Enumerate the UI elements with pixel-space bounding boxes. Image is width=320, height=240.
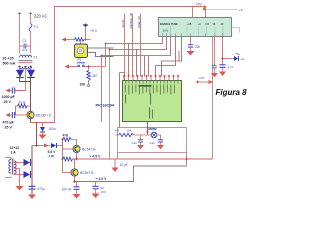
ground cluster 2 bbox=[222, 67, 224, 71]
svg-text:22n: 22n bbox=[195, 45, 201, 49]
diode D7 bbox=[220, 64, 226, 66]
wire top vertical 3 bbox=[140, 14, 142, 77]
junction row above IC bbox=[123, 75, 179, 77]
wire vertical bus d bbox=[120, 73, 125, 81]
svg-text:C1: C1 bbox=[23, 39, 27, 43]
wire TR1 sec right bbox=[30, 67, 32, 71]
wire raw dc down bbox=[30, 82, 32, 112]
border crystal box bbox=[118, 128, 187, 153]
ground C7 bbox=[76, 189, 78, 194]
wire staircase bus L4 bbox=[156, 37, 176, 77]
resistor R4 bbox=[75, 38, 85, 42]
wire T2 base bbox=[63, 172, 74, 174]
junction rail2 bbox=[73, 180, 76, 183]
wire vertical bus b bbox=[101, 56, 103, 122]
capacitor C2 1000uF bbox=[11, 88, 13, 94]
svg-text:12+12: 12+12 bbox=[10, 146, 20, 150]
wire mic out 1 bbox=[88, 47, 114, 49]
wire bus vertical h bbox=[148, 56, 150, 77]
wire base Q1 bbox=[16, 114, 30, 116]
wire staircase bus L2 bbox=[110, 37, 167, 50]
resistor R5 vertical bbox=[88, 67, 90, 71]
capacitor C9 bbox=[140, 135, 142, 140]
junction crystal bbox=[146, 131, 148, 133]
diode D1 bbox=[16, 70, 23, 77]
wire top right bbox=[206, 9, 238, 11]
svg-text:OUT: OUT bbox=[199, 76, 206, 80]
svg-text:1000 µF: 1000 µF bbox=[2, 95, 16, 99]
labels top verticals bbox=[121, 12, 141, 28]
wire bus vertical f bbox=[136, 50, 138, 77]
module inner leads bbox=[171, 27, 224, 37]
wire bus vertical e bbox=[128, 44, 130, 77]
svg-text:AF: AF bbox=[221, 23, 225, 26]
svg-text:4 n7: 4 n7 bbox=[228, 65, 234, 69]
ground cluster 1 bbox=[214, 68, 216, 73]
wire crystal feed bbox=[147, 122, 149, 135]
border bottom right bbox=[186, 153, 188, 167]
node TR1 taps bbox=[19, 66, 21, 68]
wire R1 right bbox=[27, 105, 31, 107]
svg-text:470 µF: 470 µF bbox=[3, 121, 15, 125]
capacitor C12 bbox=[214, 64, 216, 66]
capacitor C10 bbox=[158, 139, 163, 141]
IC U1 PIC bbox=[123, 81, 182, 122]
svg-text:1 A: 1 A bbox=[11, 151, 17, 155]
wire TR1 sec left bbox=[19, 67, 21, 71]
wire rail1 bbox=[73, 158, 213, 160]
transistor Q1 BD135 bbox=[27, 111, 34, 118]
border outer box bbox=[31, 7, 206, 123]
svg-text:+U: +U bbox=[198, 23, 201, 26]
diode D4 bbox=[24, 159, 31, 166]
ground TR2 bbox=[16, 186, 24, 191]
wire mic out 2 bbox=[88, 53, 114, 57]
transformer TR2 core bbox=[11, 159, 13, 175]
pushbutton P1 bbox=[69, 66, 79, 68]
junction right cluster bbox=[221, 57, 224, 60]
svg-text:Figura 8: Figura 8 bbox=[216, 88, 248, 97]
svg-text:47K: 47K bbox=[63, 134, 70, 138]
IC top center text bbox=[139, 85, 152, 87]
wire top vertical 2 bbox=[132, 14, 134, 77]
svg-text:1 W: 1 W bbox=[49, 154, 55, 158]
svg-text:4K7: 4K7 bbox=[92, 74, 98, 78]
svg-text:+UB: +UB bbox=[187, 23, 192, 26]
wire to varicap bbox=[223, 58, 235, 60]
connector arrow P1 bbox=[65, 65, 70, 69]
wire +5 branch down bbox=[36, 123, 38, 146]
wire diode outs bbox=[30, 162, 32, 164]
diode D2 bbox=[27, 70, 34, 77]
capacitor C8 bbox=[95, 182, 97, 187]
ground C4 bbox=[28, 195, 36, 199]
wire osc row bbox=[134, 134, 152, 136]
wire TR2 sec top bbox=[14, 162, 24, 164]
wire TR2 center tap bbox=[14, 169, 20, 187]
wire T1 base bbox=[63, 148, 76, 150]
svg-text:10K: 10K bbox=[80, 83, 87, 87]
svg-text:FM: FM bbox=[206, 23, 210, 26]
wire crystal box stub bbox=[117, 153, 119, 160]
svg-text:BC547 B: BC547 B bbox=[80, 171, 94, 175]
svg-text:100 nF: 100 nF bbox=[62, 188, 72, 192]
wire IC pin stubs bbox=[124, 77, 178, 81]
svg-text:TUNE_UP: TUNE_UP bbox=[137, 16, 141, 29]
svg-text:SGN: SGN bbox=[163, 30, 169, 33]
capacitor C11 bbox=[188, 44, 193, 46]
ground C10 bbox=[160, 142, 162, 145]
wire module pin 214 down bbox=[214, 37, 216, 45]
svg-text:PIC16C84: PIC16C84 bbox=[96, 103, 115, 108]
connector arrow mic line bbox=[62, 38, 67, 42]
svg-text:4n7: 4n7 bbox=[115, 129, 120, 133]
IC center column text bbox=[150, 94, 151, 105]
svg-text:BD135 +5: BD135 +5 bbox=[36, 114, 51, 118]
wire diode outputs join bbox=[20, 78, 31, 82]
transistor T2 bbox=[71, 169, 78, 176]
svg-text:+5V: +5V bbox=[196, 3, 203, 7]
svg-text:ENABLE TUNE: ENABLE TUNE bbox=[160, 23, 178, 26]
ground C11 bbox=[190, 47, 192, 51]
svg-text:T1: T1 bbox=[34, 56, 38, 60]
wire vertical bus c bbox=[109, 50, 111, 160]
svg-text:20 +20: 20 +20 bbox=[3, 57, 14, 61]
svg-text:P1: P1 bbox=[78, 58, 82, 62]
wire mains left bbox=[19, 14, 21, 54]
arrow OUT bbox=[198, 81, 209, 83]
svg-text:+ 4,5 V: + 4,5 V bbox=[90, 155, 102, 159]
junction rail1 right bbox=[185, 158, 187, 160]
svg-text:+9 V: +9 V bbox=[90, 29, 98, 33]
wire module pin 222 down bbox=[222, 37, 224, 65]
svg-text:10K: 10K bbox=[127, 129, 132, 133]
IC bottom column text bbox=[149, 108, 150, 119]
svg-text:10 µF: 10 µF bbox=[120, 163, 128, 167]
svg-text:Cap: Cap bbox=[132, 141, 138, 145]
wire module right stub bbox=[232, 28, 240, 33]
svg-text:220 AC: 220 AC bbox=[34, 14, 47, 19]
svg-text:+ 4,5 V: + 4,5 V bbox=[96, 177, 108, 181]
junction bends bbox=[105, 43, 107, 45]
wire top vertical 1 bbox=[124, 14, 126, 77]
ground zener bbox=[42, 132, 44, 135]
IC left column text bbox=[125, 95, 126, 104]
wire main vertical rail psu2 bbox=[31, 146, 33, 195]
supply arrow +9V bbox=[85, 26, 87, 40]
svg-text:16V: 16V bbox=[101, 190, 106, 194]
module pin ticks bbox=[163, 34, 223, 37]
varicap D8 bbox=[234, 56, 238, 61]
svg-text:500 mA: 500 mA bbox=[3, 62, 16, 66]
capacitor C4 bbox=[29, 185, 36, 187]
diode D5 bbox=[24, 171, 31, 178]
zener D6 bbox=[49, 145, 51, 147]
node terminal left bbox=[19, 13, 21, 14]
svg-text:Cap: Cap bbox=[150, 141, 156, 145]
junction rail1 bbox=[75, 158, 78, 161]
resistor R1 bbox=[18, 104, 28, 108]
wire TR2 sec bottom bbox=[14, 174, 24, 176]
wire R1 left bbox=[16, 106, 18, 115]
junction R4 bbox=[84, 38, 86, 40]
svg-text:ENABLE_UP: ENABLE_UP bbox=[129, 12, 133, 28]
wire module pin 190 down bbox=[190, 37, 192, 45]
wire bus vertical g bbox=[144, 56, 146, 77]
wire T2 collector bbox=[74, 159, 76, 169]
wire staircase bus L3 bbox=[102, 37, 171, 56]
wire bus stub right bbox=[178, 51, 180, 62]
ground C8 bbox=[95, 189, 97, 194]
transformer TR2 bbox=[9, 160, 16, 174]
svg-text:25 V: 25 V bbox=[5, 126, 13, 130]
svg-text:BC547 B: BC547 B bbox=[82, 148, 96, 152]
svg-text:25 V: 25 V bbox=[4, 100, 12, 104]
wire TR2 primary leads bbox=[5, 158, 11, 160]
wire vertical bus a bbox=[105, 44, 107, 67]
IC pin ticks top bbox=[126, 81, 179, 84]
fuse F1 bbox=[29, 24, 32, 32]
svg-text:F1: F1 bbox=[34, 25, 38, 29]
svg-text:3n3: 3n3 bbox=[22, 48, 27, 52]
svg-text:470µ: 470µ bbox=[38, 187, 45, 191]
svg-text:+9: +9 bbox=[241, 57, 245, 61]
microphone MIC1 bbox=[75, 44, 88, 58]
junction R2 bbox=[61, 138, 63, 140]
capacitor C1 across mains bbox=[20, 45, 24, 47]
arrow output tap down bbox=[114, 159, 116, 168]
resistor R3 bbox=[63, 157, 73, 161]
capacitor C3 bbox=[11, 112, 13, 118]
resistor R2 bbox=[63, 138, 72, 142]
transistor T1 bbox=[73, 145, 80, 152]
svg-text:+V: +V bbox=[239, 8, 243, 12]
wire TR1 center tap bbox=[17, 67, 26, 91]
ground C9 bbox=[140, 142, 142, 145]
wire crystal right bbox=[157, 135, 160, 140]
svg-text:100n: 100n bbox=[49, 127, 56, 131]
connector arrow left base bbox=[6, 113, 11, 117]
wire staircase bus L5 bbox=[162, 37, 182, 77]
transformer TR1 bbox=[20, 55, 32, 69]
wire T1 emitter bbox=[76, 153, 78, 159]
svg-text:SCL/P: SCL/P bbox=[121, 20, 125, 28]
transformer TR1 core bbox=[19, 60, 33, 62]
junction P1 resistor bbox=[87, 65, 90, 68]
wire mains right lower bbox=[30, 32, 32, 54]
wire mains right bbox=[30, 14, 32, 24]
connector arrow zener rail bbox=[32, 145, 44, 147]
capacitor C7 bbox=[76, 182, 78, 187]
crystal X1 bbox=[151, 132, 157, 138]
wire staircase bus L1 bbox=[106, 37, 163, 44]
IC pin labels inner bbox=[125, 85, 175, 95]
module RADIO bbox=[159, 18, 232, 37]
wire module top stub bbox=[192, 7, 194, 18]
connector arrow left C2 bbox=[6, 89, 11, 93]
wire to mic bbox=[80, 42, 82, 45]
resistor R osc bbox=[116, 134, 119, 136]
wire Q1 emitter bbox=[30, 119, 32, 123]
border right edge bbox=[212, 31, 214, 160]
wire R2 to T1 collector bbox=[71, 140, 77, 146]
wire T2 emitter bbox=[74, 176, 76, 181]
zener D3 bbox=[42, 123, 44, 127]
node terminal right bbox=[30, 13, 32, 14]
wire base bus vertical bbox=[62, 140, 64, 173]
wire rail2 bbox=[75, 166, 187, 182]
